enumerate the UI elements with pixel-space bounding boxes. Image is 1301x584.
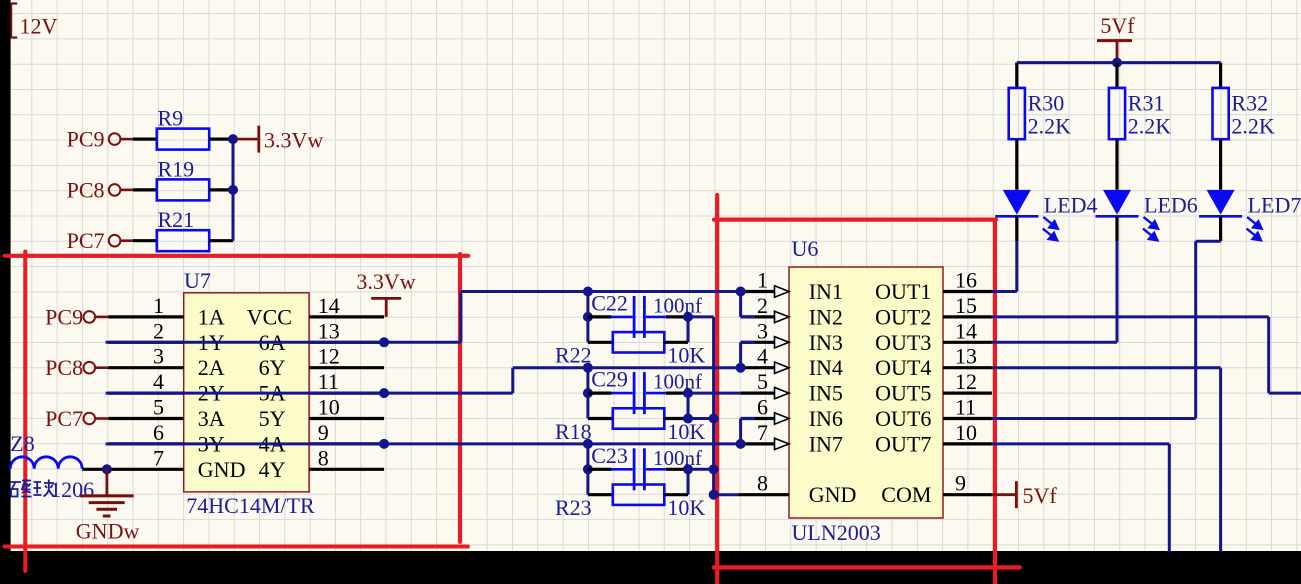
svg-text:Z8: Z8 [10,431,34,456]
junction C23 left [583,464,593,474]
svg-text:12V: 12V [20,13,58,38]
svg-text:15: 15 [955,293,977,318]
svg-text:2: 2 [757,293,768,318]
svg-text:PC8: PC8 [67,177,105,202]
resistor R30 [1009,63,1071,190]
U6 pin 2 (IN2) [741,293,789,323]
port PC8 (U7) [45,355,108,380]
U7 pin 10 (5Y) [309,395,384,420]
U6 pin 6 (IN6) [741,395,789,425]
svg-text:R31: R31 [1128,91,1165,116]
svg-text:COM: COM [881,482,931,507]
U7 pin 13 (6A) [309,318,384,343]
designator U7 [184,268,211,293]
port PC7 (U7) [45,406,108,431]
U7 pin 12 (6Y) [309,344,384,369]
svg-text:IN2: IN2 [809,304,843,329]
svg-text:8: 8 [757,471,768,496]
wire IN4 to IN3 [741,342,755,367]
svg-text:74HC14M/TR: 74HC14M/TR [186,493,315,518]
designator U6 [792,236,819,261]
junction at U7 pin 13 [379,337,389,347]
junction at U7 pin 7 / ground [102,464,112,474]
svg-text:4Y: 4Y [259,457,286,482]
svg-text:R32: R32 [1231,91,1268,116]
U7 pin 6 (3Y) [109,420,184,445]
wire C23 to ground rail [688,468,714,471]
wire R18 to ground rail [688,417,714,420]
red annotation box 1 (around U7 block) [5,252,469,571]
svg-text:16: 16 [955,268,977,293]
resistor R32 [1213,63,1275,190]
svg-text:12: 12 [318,344,340,369]
U6 pin 16 (OUT1) [943,268,992,293]
resistor R22 [555,332,705,368]
wire OUT7 (pin 10) down [992,444,1169,552]
wire IN7 to IN6 [741,419,755,444]
junction R18 right [683,414,693,424]
svg-text:PC9: PC9 [67,127,105,152]
svg-text:R23: R23 [555,495,592,520]
U6 pin 3 (IN3) [741,318,789,348]
svg-text:IN3: IN3 [809,330,843,355]
wire OUT1 to LED4 [992,241,1017,291]
value 74HC14M/TR [186,493,315,518]
U6 pin 9 (COM) [943,471,992,496]
wire OUT2 (pin 15) to right edge [992,317,1301,393]
svg-text:IN1: IN1 [809,279,843,304]
U6 pin 11 (OUT6) [943,395,992,420]
svg-text:7: 7 [757,420,768,445]
port PC9 (top) [67,127,133,152]
svg-text:2.2K: 2.2K [1231,114,1275,139]
svg-text:8: 8 [318,445,329,470]
U6 pin 15 (OUT2) [943,293,992,318]
port PC7 (top) [67,228,133,253]
U7 pin 1 (1A) [109,293,184,318]
wire 5V rail to resistors [1017,61,1221,64]
power port 5Vf (U6 COM) [992,481,1057,508]
label 磁珠1206 [11,477,95,502]
U6 pin 14 (OUT3) [943,318,992,343]
svg-text:GND: GND [198,457,246,482]
svg-text:100nf: 100nf [653,370,702,394]
red annotation box 2 (around U6 block) [714,195,1020,584]
svg-text:10K: 10K [667,343,705,368]
svg-text:7: 7 [153,445,164,470]
capacitor C29 [588,367,702,414]
junction at U7 pin 9 [379,439,389,449]
svg-text:IN7: IN7 [809,431,843,456]
wire PC9 to R9 [133,138,157,141]
wire net 2Y (U7 pin4 to U6 IN3/IN4) [106,368,741,393]
wire OUT3 to LED6 [992,241,1117,342]
svg-text:PC9: PC9 [45,304,83,329]
svg-text:LED7: LED7 [1248,193,1301,218]
wire rail to U6 pin 8 [714,493,739,496]
U7 pin 8 (4Y) [309,445,384,470]
svg-text:4: 4 [153,369,164,394]
svg-text:OUT2: OUT2 [875,304,931,329]
junction U6 IN3/IN4 [736,363,746,373]
svg-text:2.2K: 2.2K [1128,114,1172,139]
svg-text:3A: 3A [198,406,225,431]
junction C29 left [583,388,593,398]
U7 pin 3 (2A) [109,344,184,369]
junction C23 hang [583,439,593,449]
power port 12V [11,3,58,39]
resistor R18 [555,408,705,444]
U7 pin 4 (2Y) [109,369,184,394]
svg-text:3.3Vw: 3.3Vw [356,269,415,294]
svg-text:LED6: LED6 [1144,193,1198,218]
junction C22 left [583,312,593,322]
svg-text:12: 12 [955,369,977,394]
svg-text:OUT7: OUT7 [875,431,931,456]
U6 pin 13 (OUT4) [943,344,992,369]
wire OUT6 (pin 11) to LED7 [992,241,1221,418]
svg-text:PC7: PC7 [67,228,105,253]
junction C22 hang [583,287,593,297]
svg-text:PC8: PC8 [45,355,83,380]
svg-text:9: 9 [318,420,329,445]
svg-text:5: 5 [153,395,164,420]
junction rail at GND pin [709,490,719,500]
U7 pin 5 (3A) [109,395,184,420]
ground GNDw [76,469,140,543]
wire C22 to ground rail [688,315,714,318]
svg-text:VCC: VCC [247,304,292,329]
svg-text:OUT5: OUT5 [875,381,931,406]
svg-text:GNDw: GNDw [76,519,140,544]
capacitor C22 [588,291,702,338]
LED LED4 [995,190,1097,241]
svg-text:13: 13 [955,344,977,369]
svg-text:U7: U7 [184,268,211,293]
svg-text:1: 1 [757,268,768,293]
svg-text:5Vf: 5Vf [1100,13,1135,38]
svg-text:6Y: 6Y [259,355,286,380]
svg-text:C23: C23 [591,443,628,468]
wire C22 right drop [687,317,690,342]
svg-text:9: 9 [955,471,966,496]
wire: common vertical to 3.3Vw [232,139,235,241]
U7 pin 2 (1Y) [109,318,184,343]
svg-text:C22: C22 [591,291,628,316]
U6 pin 10 (OUT7) [943,420,992,445]
svg-text:PC7: PC7 [45,406,83,431]
junction C23 right [683,464,693,474]
svg-text:11: 11 [318,369,339,394]
svg-text:OUT6: OUT6 [875,406,931,431]
svg-text:10K: 10K [667,495,705,520]
svg-text:2.2K: 2.2K [1028,114,1072,139]
junction at R9/3.3Vw [228,134,238,144]
svg-text:OUT3: OUT3 [875,330,931,355]
svg-text:5Y: 5Y [259,406,286,431]
svg-text:IN6: IN6 [809,406,843,431]
resistor R23 [555,485,705,521]
wire OUT4 (pin 13) down [992,368,1221,552]
resistor R21 [157,207,233,251]
svg-text:4: 4 [757,344,768,369]
U7 pin 7 (GND) [109,445,184,470]
wire drop to C22/R22 [586,292,589,343]
svg-text:2: 2 [153,318,164,343]
svg-text:C29: C29 [591,367,628,392]
svg-text:R21: R21 [158,207,195,232]
junction 5V rail [1112,58,1122,68]
LED LED7 [1199,190,1301,241]
resistor R31 [1109,63,1171,190]
svg-text:ULN2003: ULN2003 [792,520,881,545]
svg-text:13: 13 [318,318,340,343]
svg-text:100nf: 100nf [653,294,702,318]
ferrite bead Z8 [10,431,108,469]
power port 5Vf (top) [1097,13,1135,63]
svg-text:OUT4: OUT4 [875,355,931,380]
ground rail vertical [712,317,715,495]
U6 pin 12 (OUT5) [943,369,992,394]
svg-text:U6: U6 [792,236,819,261]
svg-text:100nf: 100nf [653,446,702,470]
svg-text:5: 5 [757,369,768,394]
resistor R9 [157,106,233,150]
LED LED6 [1096,190,1198,241]
wire net 3Y (U7 pin6 to U6 IN6/IN7) [106,442,741,445]
wire C23 right drop [687,469,690,494]
wire drop to C29/R18 [586,368,589,419]
U6 pin 5 (IN5) [741,369,789,399]
wire IN1 to IN2 [741,292,755,317]
svg-text:R19: R19 [158,156,195,181]
power port 3.3Vw (top) [236,126,323,153]
svg-text:14: 14 [955,318,977,343]
wire C29 to U6 IN5 [688,392,741,395]
svg-text:R9: R9 [158,106,184,131]
svg-text:1206: 1206 [50,477,94,502]
svg-text:6: 6 [153,420,164,445]
junction at R19 [228,185,238,195]
junction rail at R18 [709,414,719,424]
U6 pin 8 (GND) [738,471,789,496]
junction U6 IN1/IN2 [736,287,746,297]
svg-text:R30: R30 [1028,91,1065,116]
U6 pin 4 (IN4) [741,344,789,374]
junction U6 IN6/IN7 [736,439,746,449]
svg-text:1A: 1A [198,304,225,329]
junction rail at C23 [709,464,719,474]
U7 pin 14 (VCC) [309,293,384,318]
svg-text:IN5: IN5 [809,381,843,406]
wire PC8 to R19 [133,188,157,191]
wire PC7 to R21 [133,239,157,242]
svg-text:10: 10 [955,420,977,445]
value ULN2003 [792,520,881,545]
wire net 1Y (U7 pin2 to U6 IN1/IN2) [106,292,741,343]
svg-text:1: 1 [153,293,164,318]
op-amp U6 body (ULN2003) [789,267,943,518]
resistor R19 [157,156,233,200]
svg-text:GND: GND [809,482,857,507]
svg-text:3: 3 [757,318,768,343]
svg-text:6: 6 [757,395,768,420]
junction C29 right [683,388,693,398]
svg-text:14: 14 [318,293,340,318]
svg-text:10: 10 [318,395,340,420]
U7 pin names [198,304,292,481]
svg-text:11: 11 [955,395,976,420]
svg-text:IN4: IN4 [809,355,843,380]
junction C22 right [683,312,693,322]
svg-text:3.3Vw: 3.3Vw [264,128,323,153]
U6 pin 1 (IN1) [741,268,789,298]
U7 pin 9 (4A) [309,420,384,445]
svg-text:2A: 2A [198,355,225,380]
U6 pin names [809,279,932,507]
svg-text:LED4: LED4 [1044,193,1098,218]
svg-text:5Vf: 5Vf [1023,483,1058,508]
port PC9 (U7) [45,304,108,329]
junction C29 hang [583,363,593,373]
power port 3.3Vw (U7 pin 14) [356,269,415,317]
wire C29 right drop [687,393,690,418]
capacitor C23 [588,443,702,490]
U7 pin 11 (5A) [309,369,384,394]
wire drop to C23/R23 [586,444,589,495]
junction at U7 pin 11 [379,388,389,398]
svg-text:OUT1: OUT1 [875,279,931,304]
port PC8 (top) [67,177,133,202]
op-amp U7 body (74HC14) [184,293,309,492]
svg-text:3: 3 [153,344,164,369]
U6 pin 7 (IN7) [741,420,789,450]
